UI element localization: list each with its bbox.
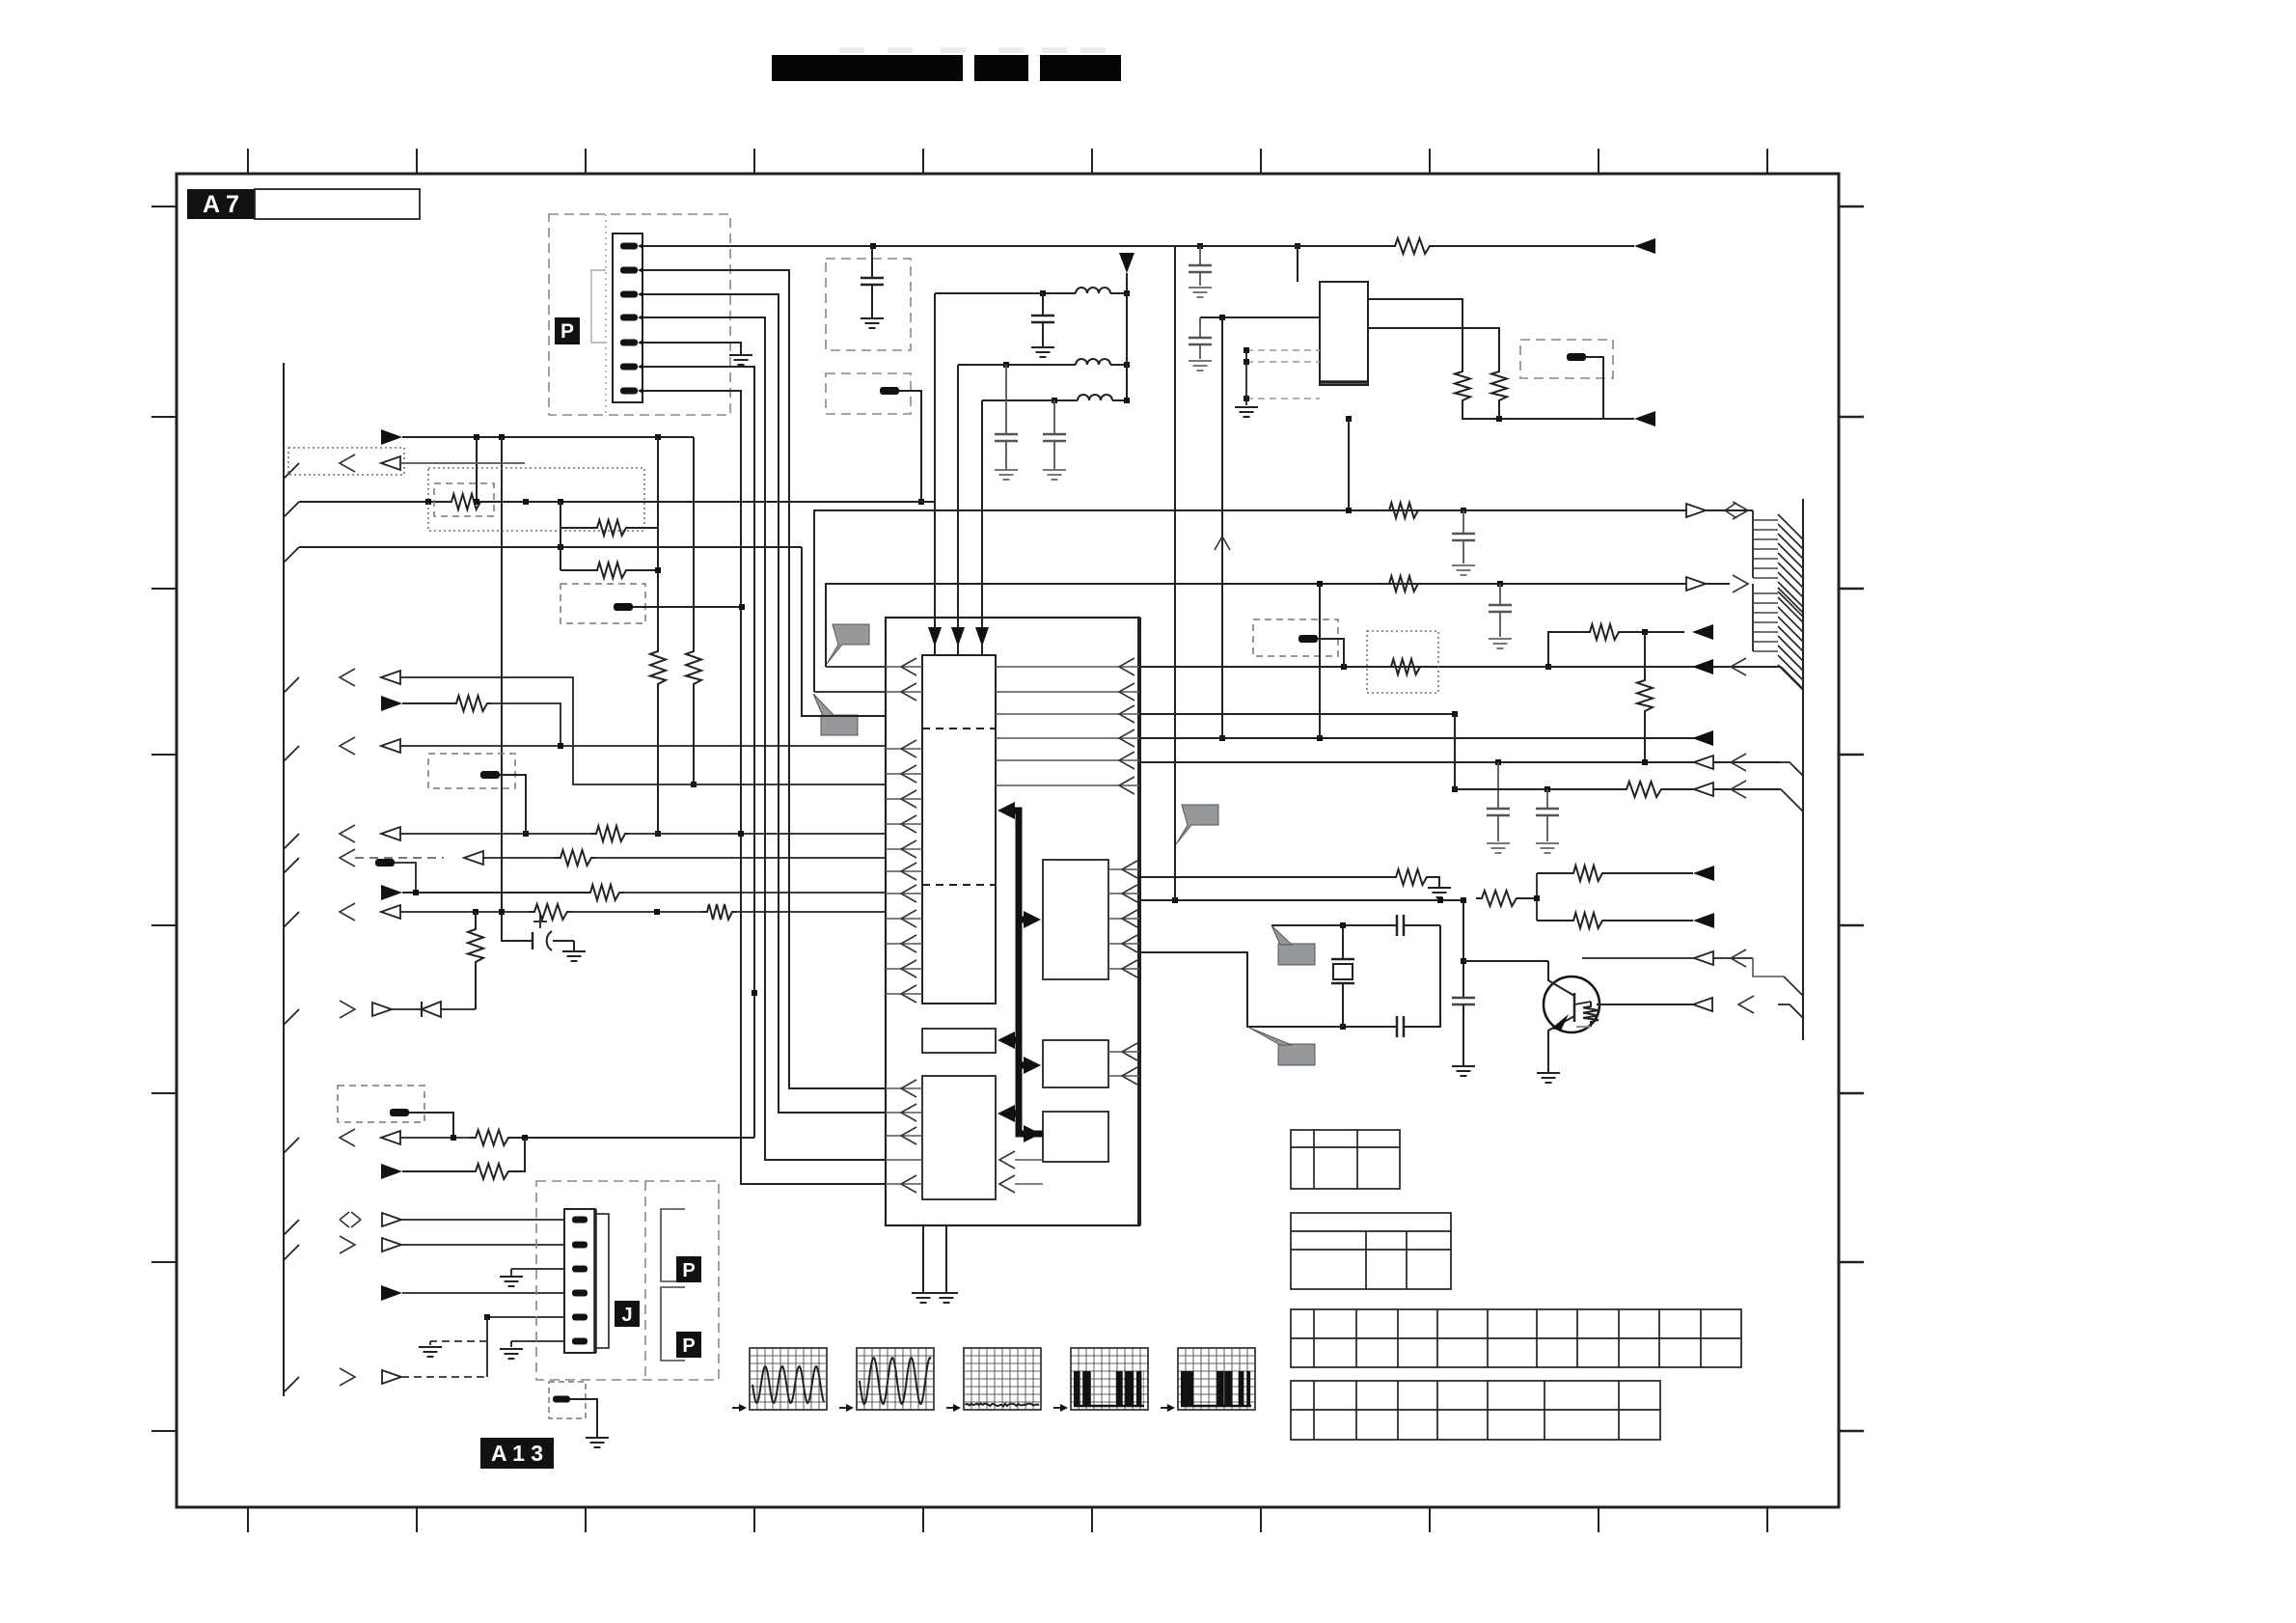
wire R309a out (633, 606, 742, 608)
IC301 block C pin 926 (1108, 893, 1139, 894)
bracket P3 (661, 1287, 685, 1361)
dotted group filter (428, 468, 644, 531)
ground (P1.5) (729, 354, 752, 356)
frame tick marks right (1839, 206, 1864, 208)
arrow row790 (1694, 756, 1713, 769)
dashed group R102 (826, 373, 911, 414)
wire R102 to rail (899, 391, 921, 502)
capacitor C103 (1005, 365, 1007, 434)
waveform arrow 2 (839, 1407, 849, 1409)
svg-text:A 1 3: A 1 3 (491, 1441, 543, 1466)
connector J1 dashed enclosure (536, 1181, 719, 1380)
right collector bus (1802, 499, 1804, 1040)
title bar block 1 (redacted) (772, 55, 963, 81)
table T2 (1291, 1213, 1451, 1289)
wire row993 (1582, 957, 1753, 959)
IC301 block B pin 1202 (886, 1159, 922, 1161)
IC301 top input arrow 3 (975, 627, 989, 646)
IC301 right pin 814 (996, 784, 1139, 786)
bus ribbon fan 1 (1752, 510, 1754, 578)
IC301 left pin 717 (886, 691, 922, 693)
svg-text:P: P (560, 320, 574, 343)
bus arrow to D (1024, 1057, 1041, 1074)
wire row818 (1454, 714, 1456, 789)
IC301 left pin 776 (886, 748, 922, 750)
wire P1.5 (642, 343, 741, 355)
IC301 left pin 854 (886, 823, 922, 825)
IC301 data bus (1011, 811, 1043, 1134)
Q1 emitter (1548, 1016, 1574, 1073)
wire P1.4 (642, 317, 886, 1160)
ground (IC301 b) (935, 1292, 958, 1294)
label P (connector P1) (555, 317, 580, 344)
IC301 sub block B (922, 1076, 996, 1199)
burst waveform W4 (1071, 1348, 1148, 1410)
wire IC201 out1 (1368, 299, 1462, 367)
wire R201 join (1462, 405, 1634, 419)
capacitor C404 (1396, 1016, 1399, 1037)
wire R404 drop (1318, 639, 1344, 667)
IC301 outer boundary (886, 618, 1139, 1225)
arrow row818 (1694, 783, 1713, 796)
wire IC301 feed 3 (981, 400, 983, 629)
IC301 ground stub 1 (922, 1225, 924, 1293)
table T4 (1291, 1381, 1660, 1440)
IC301 right block D (1043, 1040, 1108, 1087)
IC301 block B pin 1128 (886, 1087, 922, 1089)
wire row520 (284, 502, 299, 517)
wire row765 (1139, 737, 1713, 739)
title bar block 2 (redacted) (974, 55, 1028, 81)
wire row453 (381, 429, 402, 445)
IC301 top input arrow 1 (928, 627, 942, 646)
wire P1.3 (642, 294, 886, 1113)
ground (Q1) (1537, 1072, 1560, 1074)
ground (IC301 a) (912, 1292, 935, 1294)
value blob R404 (1298, 635, 1318, 643)
title bar block 3 (redacted) (1040, 55, 1121, 81)
capacitor C301 (electrolytic) (533, 921, 547, 922)
ground (IC201) (1235, 406, 1258, 408)
value blob R204 (1567, 353, 1586, 361)
wire row905 (1537, 872, 1568, 874)
IC301 left pin 691 (886, 666, 922, 668)
connector P1 pin 4 (620, 315, 638, 321)
wire rowE (284, 858, 299, 873)
wire rowF (381, 885, 402, 900)
antenna arrow (1119, 253, 1134, 273)
sine waveform W2 (857, 1348, 934, 1410)
ground (C105) (1189, 287, 1212, 289)
wire row1340 (381, 1285, 402, 1301)
wire L102 feed (958, 364, 1006, 366)
wire row1290 (284, 1245, 299, 1260)
resistor R405 (1476, 891, 1520, 906)
wire row655 (1548, 632, 1584, 667)
connector P1 pin 6 (620, 364, 638, 371)
resistor R403 (1385, 659, 1424, 674)
wire row255 out (1175, 245, 1389, 247)
label P (link P3) (676, 1332, 701, 1358)
wire top rail corner (1174, 246, 1176, 293)
IC301 right pin 788 (996, 759, 1139, 761)
bus arrow to C (1024, 911, 1041, 928)
dashed group R404 (1253, 619, 1338, 656)
wire row567 (284, 547, 299, 563)
dashed group R309 (338, 1086, 424, 1122)
wire P1.1 (642, 245, 1175, 247)
dashed group R309a (560, 584, 645, 623)
crystal X1 (1342, 925, 1344, 959)
wire row1046 (284, 1009, 299, 1025)
capacitor C104 (1053, 400, 1055, 434)
IC301 block C pin 901 (1108, 868, 1139, 870)
wire 1218 drop (1174, 293, 1176, 900)
IC301 block B pin 1227 (886, 1183, 922, 1185)
wire R310 out (500, 775, 526, 834)
capacitor C101 (871, 246, 873, 278)
wire R303 tail (657, 689, 659, 834)
connector P1 pin 2 (620, 267, 638, 274)
wire rowD (284, 834, 299, 849)
wire row954 (1537, 920, 1568, 922)
IC301 top input arrow 2 (951, 627, 965, 646)
dashed group R204 (1520, 340, 1613, 378)
IC301 core divider 1 (922, 728, 996, 729)
IC301 block C pin 952 (1108, 918, 1139, 920)
connector J1 pin 5 (572, 1314, 588, 1321)
wire IC201 top feed (1297, 246, 1298, 282)
ground (1517) (1452, 1065, 1475, 1067)
IC301 right block E (1043, 1112, 1108, 1162)
sine waveform W1 (750, 1348, 827, 1410)
IC301 right pin 765 (996, 737, 1139, 739)
frame tick marks top (247, 149, 249, 174)
wire row529 (814, 510, 1753, 692)
arrow row655 (1692, 624, 1713, 640)
wire rowB (381, 696, 402, 711)
wire row605 pin (826, 666, 886, 668)
IC301 block B inner stubs (999, 1151, 1015, 1169)
table T1 (1291, 1130, 1400, 1189)
wire row740 (1139, 713, 1455, 715)
capacitor C402 (1546, 789, 1548, 809)
ground (C104) (1043, 469, 1066, 471)
ground (C103) (995, 469, 1018, 471)
arrow out (row255) (1634, 238, 1655, 254)
IC301 block C pin 978 (1108, 943, 1139, 945)
arrow out (row434) (1634, 411, 1655, 426)
IC301 left pin 880 (886, 848, 922, 850)
wire clock sense (1221, 317, 1223, 738)
bus arrow to core (998, 802, 1015, 819)
connector J1 pin 1 (572, 1217, 588, 1224)
bus arrow to A (998, 1032, 1015, 1049)
arrow row765 (1692, 730, 1713, 746)
wire IC301 feed 2 (957, 365, 959, 629)
capacitor C403 (1396, 915, 1399, 936)
IC301 right pin 717 (996, 691, 1139, 693)
ground (R311) (586, 1437, 609, 1439)
waveform arrow 5 (1161, 1407, 1170, 1409)
value blob R102 (880, 387, 899, 395)
ground (C301) (573, 941, 575, 951)
wire IC301 feed 1 (934, 293, 936, 629)
IC301 left pin 1030 (886, 993, 922, 995)
callout note 3 (1176, 805, 1218, 844)
wire R204 drop (1586, 357, 1603, 419)
arrow Q1 out (1693, 998, 1712, 1011)
ground (J pin3) (500, 1276, 523, 1278)
inductor L101 (1043, 292, 1076, 294)
dotted group R403 (1367, 631, 1438, 693)
connector P1 pin 5 (620, 340, 638, 346)
resistor R406 (1574, 1002, 1591, 1004)
title remnants (faint) (839, 47, 864, 53)
capacitor C107 (1462, 510, 1464, 534)
wire row933 (1139, 899, 1463, 901)
wire link 581 (560, 502, 561, 570)
arrow row691 (1692, 659, 1713, 674)
IC201 dashed pins (1246, 349, 1320, 351)
callout note 4 (1278, 944, 1315, 965)
IC301 left pin 903 (886, 870, 922, 872)
callout note 1 (827, 624, 869, 664)
IC301 block B pin 1177 (886, 1135, 922, 1137)
callout note 2 (821, 715, 858, 735)
arrow row905 (1693, 866, 1714, 881)
wire L101 feed (935, 292, 1043, 294)
IC301 block D pin 1090 (1108, 1051, 1139, 1053)
resistor R308 (560, 569, 591, 571)
value blob R311 (553, 1396, 570, 1403)
wire rowC (284, 746, 299, 761)
table T3 (1291, 1309, 1741, 1367)
dashed group C101 (cap to gnd) (826, 259, 911, 350)
resistor R201 (1455, 367, 1470, 405)
arrow row529 (1686, 504, 1706, 517)
bracket P2 (661, 1209, 685, 1281)
Q1 base bar (1573, 993, 1576, 1022)
connector J1 divider (644, 1181, 646, 1380)
IC301 left pin 828 (886, 798, 922, 800)
burst waveform W5 (1178, 1348, 1255, 1410)
ground (C107) (1452, 564, 1475, 566)
connector P1 dotted divider (605, 214, 607, 415)
ground (C402) (1536, 842, 1559, 844)
connector P1 pin 1 (620, 243, 638, 250)
bus ribbon fan 2 (1752, 584, 1754, 651)
IC201 regulator (1320, 282, 1368, 385)
inductor L103 (1054, 399, 1078, 401)
svg-text:P: P (682, 1335, 695, 1357)
svg-text:J: J (621, 1305, 632, 1326)
value blob rowF (375, 859, 395, 867)
bus arrow to E (1024, 1125, 1041, 1142)
IC301 left pin 978 (886, 943, 922, 945)
label P (link P2) (676, 1256, 701, 1282)
flat waveform W3 (964, 1348, 1041, 1410)
value blob R310 (480, 771, 500, 779)
connector P1 body (613, 234, 642, 402)
wire row691 (1139, 666, 1781, 668)
crystal loop (1139, 952, 1343, 1027)
wire row1390 (511, 1340, 565, 1342)
capacitor C102 (1042, 293, 1044, 316)
wire row605 (826, 584, 1730, 667)
connector P1 dashed enclosure (549, 214, 730, 415)
inductor L102 (1006, 364, 1076, 366)
IC301 core block (922, 655, 996, 1004)
wire row1264 (284, 1220, 299, 1235)
ground (row909) (1428, 887, 1451, 889)
IC301 right pin 691 (996, 666, 1139, 668)
connector J1 body (564, 1209, 595, 1353)
wire row1365 (487, 1316, 565, 1318)
waveform arrow 3 (946, 1407, 956, 1409)
capacitor C106 (1199, 317, 1201, 338)
waveform arrow 1 (732, 1407, 742, 1409)
dotted group row480 (288, 448, 404, 475)
wire IC201 out2 (1368, 328, 1499, 367)
connector J1 pin 2 (572, 1242, 588, 1249)
diode D301 (422, 1002, 441, 1017)
capacitor C105 (1199, 246, 1201, 265)
wire row1179 (284, 1138, 299, 1153)
IC301 block D pin 1115 (1108, 1075, 1139, 1077)
Q1 collector (1548, 961, 1574, 996)
connector P1 bracket (591, 270, 606, 343)
wire R311 out (570, 1399, 597, 1438)
connector J1 pin 6 (572, 1338, 588, 1345)
svg-text:A 7: A 7 (203, 191, 239, 218)
svg-text:P: P (682, 1260, 695, 1281)
wire row1214 (381, 1164, 402, 1179)
wire row529 pin (814, 691, 886, 693)
wire R304 tail (693, 689, 695, 784)
IC301 left pin 802 (886, 773, 922, 775)
wire 1517 drop (1462, 900, 1464, 998)
wire 831 drop (802, 547, 886, 716)
arrow row605 (1686, 577, 1706, 591)
label J (connector J1) (615, 1301, 640, 1327)
connector P1 pin 3 (620, 291, 638, 298)
label A13 (480, 1438, 554, 1469)
IC301 right block C (1043, 860, 1108, 979)
label box (empty) (255, 189, 420, 219)
ground (C101) (861, 317, 884, 319)
wire link 1368 (1319, 584, 1321, 738)
wire row790 (1139, 761, 1781, 763)
ground (C102) (1031, 346, 1054, 348)
frame tick marks left (151, 206, 177, 207)
IC301 sub block A (922, 1029, 996, 1053)
wire P1.6 (642, 367, 754, 1138)
connector J1 pin 3 (572, 1266, 588, 1273)
resistor R303 (650, 646, 666, 689)
wire R202 join (1498, 405, 1500, 419)
wire P1.2 (642, 270, 886, 1088)
transistor Q1 (1544, 977, 1599, 1032)
dashed group R306 (434, 483, 494, 516)
wire L103 feed (982, 399, 1054, 401)
frame tick marks bottom (247, 1507, 249, 1532)
capacitor C108 (1499, 584, 1501, 605)
wire drop 494 (476, 437, 478, 502)
wire rowG (284, 912, 299, 927)
wire R309 out (409, 1113, 453, 1138)
IC301 right pin 740 (996, 713, 1139, 715)
wire row480 (284, 463, 299, 479)
resistor R402 (1644, 632, 1646, 675)
border frame (177, 174, 1839, 1507)
wire row996 (1463, 960, 1548, 962)
wire Q1 out (1597, 1004, 1693, 1005)
IC301 block B pin 1153 (886, 1112, 922, 1114)
wire P1.7 (642, 391, 886, 1184)
IC301 ground stub 2 (945, 1225, 947, 1293)
arrow row993 (1694, 951, 1713, 965)
dashed group R310 (428, 754, 515, 788)
panel label A7 (187, 189, 255, 219)
resistor R304 (686, 646, 701, 689)
capacitor C401 (1497, 762, 1499, 809)
IC301 left pin 926 (886, 893, 922, 894)
dashed group R311 (549, 1382, 586, 1418)
IC301 core divider 2 (922, 884, 996, 886)
arrow row954 (1693, 913, 1714, 928)
IC301 left pin 952 (886, 918, 922, 920)
left harness bus (283, 363, 285, 1396)
wire drop 520 (502, 437, 533, 941)
wire rowA (284, 677, 299, 693)
connector P1 pin 7 (620, 388, 638, 395)
bus arrow to B (998, 1105, 1015, 1122)
wire drop 682 (657, 437, 659, 646)
wire row1315 gnd (510, 1269, 512, 1277)
IC301 block C pin 1004 (1108, 968, 1139, 970)
wire row1427 (284, 1377, 299, 1392)
wire drop 719 (693, 437, 695, 646)
ground (C106) (1189, 360, 1212, 362)
value blob R309 (390, 1109, 409, 1116)
wire mid rail (1200, 316, 1320, 318)
value blob R309a (614, 603, 633, 611)
wire drop 493 (475, 912, 477, 924)
ground (row1390) (419, 1346, 442, 1348)
ground (C401) (1487, 842, 1510, 844)
resistor R307 (560, 527, 591, 529)
wire antenna link (1126, 293, 1128, 400)
IC301 left pin 1004 (886, 968, 922, 970)
waveform arrow 4 (1053, 1407, 1063, 1409)
callout note 5 (1278, 1044, 1315, 1065)
connector J1 pin 4 (572, 1290, 588, 1297)
wire row909 (1139, 876, 1390, 878)
ground (J pin6) (500, 1348, 523, 1350)
wire 434-529 link (1348, 419, 1350, 510)
wire link 1593 (1536, 873, 1538, 921)
ground (C108) (1489, 638, 1512, 640)
resistor R202 (1491, 367, 1507, 405)
